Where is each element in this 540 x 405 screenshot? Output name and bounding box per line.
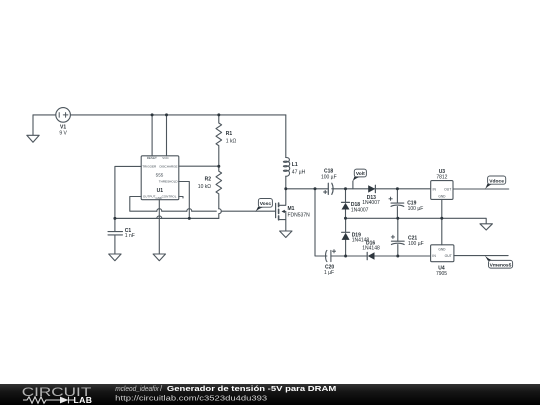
svg-text:1 kΩ: 1 kΩ xyxy=(226,138,237,144)
svg-text:1N4007: 1N4007 xyxy=(362,200,380,206)
svg-text:1N4007: 1N4007 xyxy=(351,208,369,214)
svg-text:DISCHARGE: DISCHARGE xyxy=(159,165,177,169)
svg-text:CONTROL: CONTROL xyxy=(162,195,177,199)
svg-text:LAB: LAB xyxy=(74,395,93,405)
svg-text:OUT: OUT xyxy=(444,187,451,191)
svg-text:R1: R1 xyxy=(226,131,233,137)
svg-text:VCC: VCC xyxy=(162,156,169,160)
svg-text:IN: IN xyxy=(433,187,437,191)
svg-text:Volt: Volt xyxy=(356,171,365,177)
svg-text:1 nF: 1 nF xyxy=(125,233,135,239)
svg-text:555: 555 xyxy=(156,173,164,178)
svg-text:GND: GND xyxy=(438,195,446,199)
svg-text:100 µF: 100 µF xyxy=(408,241,424,247)
svg-text:Vmenos5: Vmenos5 xyxy=(490,263,512,269)
svg-text:Generador de tensión -5V para: Generador de tensión -5V para DRAM xyxy=(167,384,336,393)
svg-text:7812: 7812 xyxy=(436,175,447,181)
svg-text:L1: L1 xyxy=(292,162,298,168)
svg-text:mcleod_ideafix: mcleod_ideafix xyxy=(115,384,159,393)
svg-text:http://circuitlab.com/c3523du4: http://circuitlab.com/c3523du4du393 xyxy=(115,394,267,403)
svg-text:10 kΩ: 10 kΩ xyxy=(198,184,211,190)
svg-text:1 µF: 1 µF xyxy=(324,270,334,276)
svg-text:FDN537N: FDN537N xyxy=(288,212,311,218)
svg-text:U1: U1 xyxy=(157,188,164,194)
svg-text:IN: IN xyxy=(432,254,436,258)
svg-text:C18: C18 xyxy=(324,169,333,175)
svg-text:GND: GND xyxy=(438,247,446,251)
svg-text:100 µF: 100 µF xyxy=(408,206,424,212)
svg-text:100 µF: 100 µF xyxy=(321,175,337,181)
svg-text:R2: R2 xyxy=(205,177,212,183)
svg-text:TRIGGER: TRIGGER xyxy=(142,165,157,169)
svg-text:OUTPUT: OUTPUT xyxy=(143,195,156,199)
svg-text:THRESHOLD: THRESHOLD xyxy=(159,180,179,184)
svg-text:Vosc: Vosc xyxy=(260,201,272,207)
svg-text:M1: M1 xyxy=(288,206,295,212)
svg-text:7905: 7905 xyxy=(436,271,447,277)
svg-text:OUT: OUT xyxy=(445,254,452,258)
svg-text:RESET: RESET xyxy=(147,156,157,160)
svg-text:Vdoce: Vdoce xyxy=(489,178,504,184)
svg-text:47 µH: 47 µH xyxy=(292,169,306,175)
svg-text:9 V: 9 V xyxy=(59,131,67,137)
svg-text:1N4148: 1N4148 xyxy=(362,245,380,251)
